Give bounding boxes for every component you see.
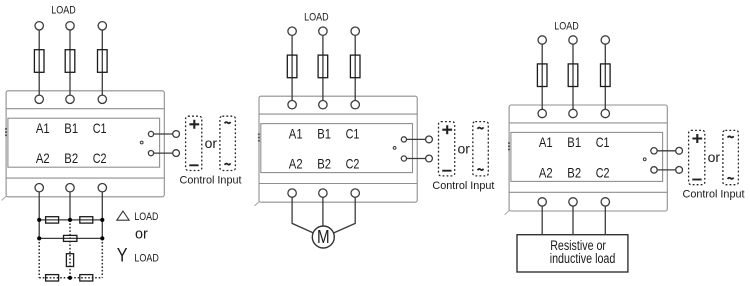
SSR module U1 top terminal strip line: [6, 108, 164, 110]
LED indicator: [643, 158, 646, 161]
control terminal circle (internal -): [401, 156, 406, 161]
control input terminal circle +: [173, 131, 180, 138]
terminal circle C1: [98, 95, 106, 103]
svg-text:Control Input: Control Input: [180, 174, 242, 186]
svg-text:LOAD: LOAD: [134, 253, 159, 265]
wire: supply C through fuse to terminal C1: [604, 44, 606, 110]
wire: supply B through fuse to terminal B1: [572, 44, 574, 110]
control input terminal circle -: [676, 167, 683, 174]
SSR module U2 outer case: [259, 96, 417, 202]
junction node A (delta top): [37, 218, 41, 222]
wire: control + terminal: [151, 133, 176, 135]
motor M: [312, 226, 334, 248]
control terminal circle (internal -): [651, 167, 657, 173]
wire (dashed): wye center vertical: [69, 220, 71, 278]
svg-text:inductive load: inductive load: [550, 251, 616, 266]
terminal circle A1: [288, 101, 296, 109]
supply terminal circle (phase A): [35, 22, 43, 30]
junction node C (delta top): [100, 218, 104, 222]
wire: A2 down to delta node A: [38, 192, 40, 220]
DIN rail clip marks: [5, 128, 7, 136]
svg-text:Control Input: Control Input: [432, 180, 494, 192]
svg-text:LOAD: LOAD: [554, 21, 579, 33]
SSR module U2 bottom terminal strip line: [259, 183, 417, 185]
AC tilde (top): [478, 127, 484, 128]
wire: right vertical delta: [101, 220, 103, 239]
svg-text:C1: C1: [93, 120, 107, 136]
svg-text:A2: A2: [36, 150, 50, 166]
wire: supply A through fuse to terminal A1: [291, 35, 293, 101]
fuse F3C: [601, 64, 611, 87]
wire: left vertical delta: [38, 220, 40, 239]
wire: B2 to motor: [322, 197, 324, 232]
fuse F1C: [98, 50, 108, 73]
resistive/inductive load box: [517, 235, 628, 272]
terminal circle C2: [351, 189, 359, 197]
terminal circle B1: [66, 95, 74, 103]
terminal circle A2: [35, 184, 43, 192]
wye load resistor (phase B): [66, 254, 73, 267]
delta load resistor B-C: [80, 217, 93, 223]
svg-text:C1: C1: [596, 134, 610, 150]
AC tilde (top): [728, 136, 734, 137]
wye star point node: [68, 276, 72, 280]
terminal circle A2: [538, 198, 546, 206]
svg-text:LOAD: LOAD: [134, 211, 158, 223]
svg-text:or: or: [708, 149, 721, 165]
control input terminal circle +: [676, 147, 683, 154]
terminal circle B2: [569, 198, 577, 206]
wye load resistor (phase A): [46, 275, 59, 281]
wire: A2 to motor: [292, 197, 318, 235]
SSR module U3 bottom terminal strip line: [509, 191, 667, 193]
svg-text:B1: B1: [64, 120, 78, 136]
AC control source box: [723, 130, 739, 184]
control terminal circle (internal +): [651, 148, 657, 154]
terminal circle A2: [288, 189, 296, 197]
minus symbol: [442, 170, 451, 172]
fuse F1A: [34, 50, 44, 73]
wire: supply A through fuse to terminal A1: [38, 30, 40, 96]
wire: supply C through fuse to terminal C1: [354, 35, 356, 101]
wire: control - terminal: [654, 169, 679, 171]
svg-text:B2: B2: [64, 150, 78, 166]
SSR module U1 bottom terminal strip line: [6, 177, 164, 179]
supply terminal circle (phase A): [538, 36, 546, 44]
wire: C2 down to delta node C: [101, 192, 103, 220]
svg-text:A2: A2: [289, 156, 303, 172]
wire: C2 to load box: [604, 206, 606, 235]
wire: A2 to load box: [541, 206, 543, 235]
wire: supply B through fuse to terminal B1: [69, 30, 71, 96]
svg-text:M: M: [317, 227, 330, 247]
AC tilde (top): [225, 122, 231, 123]
SSR module U2 top terminal strip line: [259, 113, 417, 115]
terminal circle C1: [601, 109, 609, 117]
junction node C (delta bottom): [100, 236, 104, 240]
supply terminal circle (phase B): [319, 27, 327, 35]
SSR module U2 label panel: [261, 124, 413, 173]
wire: control + terminal: [404, 138, 429, 140]
DC control source box: [689, 130, 705, 184]
DC control source box: [186, 116, 202, 170]
DIN rail clip tab: [505, 211, 510, 215]
SSR module U1 label panel: [8, 118, 160, 167]
terminal circle B2: [319, 189, 327, 197]
wire: delta top rail: [39, 219, 102, 221]
wire: control - terminal: [151, 152, 176, 154]
svg-text:or: or: [457, 140, 470, 156]
terminal circle B1: [569, 109, 577, 117]
AC control source box: [220, 116, 236, 170]
supply terminal circle (phase C): [351, 27, 359, 35]
terminal circle A1: [35, 95, 43, 103]
svg-text:Control Input: Control Input: [683, 189, 745, 201]
wire: B2 down to delta node B: [69, 192, 71, 220]
control input terminal circle -: [173, 150, 180, 157]
control terminal circle (internal +): [401, 137, 406, 142]
supply terminal circle (phase C): [98, 22, 106, 30]
svg-text:A1: A1: [539, 134, 553, 150]
delta load resistor A-C: [64, 235, 77, 241]
terminal circle C2: [601, 198, 609, 206]
SSR module U3 outer case: [509, 105, 667, 211]
supply terminal circle (phase A): [288, 27, 296, 35]
terminal circle C2: [98, 184, 106, 192]
minus symbol: [189, 164, 198, 166]
wire: delta bottom rail: [39, 237, 102, 239]
fuse F2B: [318, 55, 328, 78]
svg-text:C2: C2: [596, 164, 610, 180]
DIN rail clip marks: [258, 134, 260, 142]
junction node A (delta bottom): [37, 236, 41, 240]
svg-text:or: or: [205, 135, 218, 151]
fuse F2A: [287, 55, 297, 78]
svg-text:A1: A1: [36, 120, 50, 136]
terminal circle C1: [351, 101, 359, 109]
svg-text:B1: B1: [567, 134, 581, 150]
wire (dashed): wye left vertical: [38, 238, 40, 277]
terminal circle A1: [538, 109, 546, 117]
wire: C2 to motor: [329, 197, 355, 235]
wire (dashed): wye bottom rail: [39, 277, 102, 279]
delta load resistor A-B: [46, 217, 59, 223]
supply terminal circle (phase B): [66, 22, 74, 30]
svg-text:B1: B1: [317, 125, 331, 141]
junction node B (delta top): [68, 218, 72, 222]
svg-text:C2: C2: [93, 150, 107, 166]
svg-text:C1: C1: [346, 125, 360, 141]
svg-text:or: or: [135, 227, 148, 243]
delta symbol: [117, 211, 129, 220]
DIN rail clip tab: [2, 196, 7, 200]
control terminal circle (internal -): [148, 151, 153, 156]
fuse F1B: [65, 50, 75, 73]
plus symbol: [692, 134, 702, 143]
SSR module U3 top terminal strip line: [509, 122, 667, 124]
svg-text:A1: A1: [289, 125, 303, 141]
DC control source box: [439, 122, 455, 176]
fuse F3B: [568, 64, 578, 87]
LED indicator: [393, 147, 396, 150]
supply terminal circle (phase B): [569, 36, 577, 44]
svg-text:Y: Y: [117, 246, 128, 267]
terminal circle B2: [66, 184, 74, 192]
terminal circle B1: [319, 101, 327, 109]
wire: control - terminal: [404, 158, 429, 160]
svg-text:LOAD: LOAD: [304, 12, 329, 24]
SSR module U1 outer case: [6, 91, 164, 197]
plus symbol: [442, 125, 452, 134]
supply terminal circle (phase C): [601, 36, 609, 44]
DIN rail clip tab: [255, 202, 260, 206]
svg-text:LOAD: LOAD: [51, 5, 76, 17]
svg-text:B2: B2: [567, 164, 581, 180]
minus symbol: [692, 179, 701, 181]
AC tilde (bottom): [478, 169, 484, 170]
svg-text:C2: C2: [346, 156, 360, 172]
AC tilde (bottom): [728, 178, 734, 179]
wire: control + terminal: [654, 150, 679, 152]
control terminal circle (internal +): [148, 131, 153, 136]
wire: B2 to load box: [572, 206, 574, 235]
fuse F3A: [537, 64, 547, 87]
DIN rail clip marks: [508, 142, 510, 150]
wire: supply A through fuse to terminal A1: [541, 44, 543, 110]
wire: supply B through fuse to terminal B1: [322, 35, 324, 101]
SSR module U3 label panel: [511, 132, 663, 181]
AC control source box: [473, 122, 489, 176]
wire: supply C through fuse to terminal C1: [101, 30, 103, 96]
AC tilde (bottom): [225, 163, 231, 164]
plus symbol: [189, 120, 199, 129]
wire (dashed): wye right vertical: [101, 238, 103, 277]
svg-text:B2: B2: [317, 156, 331, 172]
control input terminal circle -: [426, 155, 433, 162]
svg-text:A2: A2: [539, 164, 553, 180]
control input terminal circle +: [426, 136, 433, 143]
fuse F2C: [350, 55, 360, 78]
wye load resistor (phase C): [80, 275, 93, 281]
LED indicator: [140, 141, 143, 144]
